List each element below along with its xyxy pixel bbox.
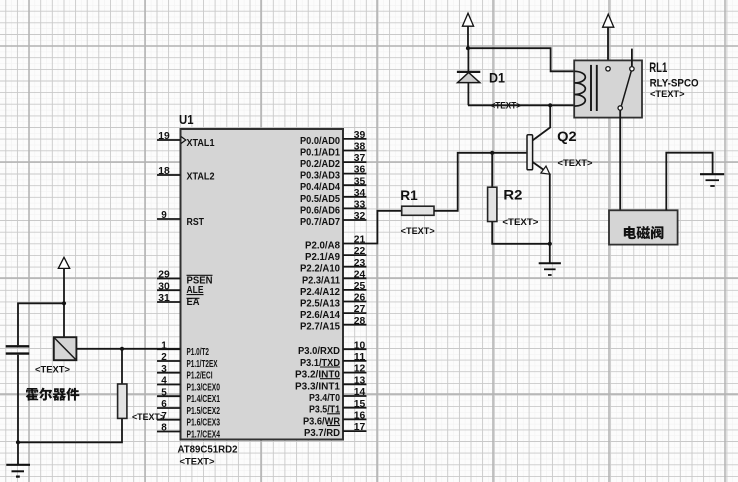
label R1 value <TEXT> bbox=[401, 226, 435, 236]
label AT89C51RD2 bbox=[178, 445, 238, 456]
svg-text:RST: RST bbox=[187, 217, 205, 228]
svg-text:12: 12 bbox=[354, 364, 366, 375]
wire emitter node to ground symbol bbox=[549, 244, 551, 263]
label D1 value <TEXT> bbox=[491, 100, 522, 110]
pin 11 P3.1/TXD bbox=[300, 352, 367, 369]
label hall sensor <TEXT> bbox=[35, 365, 70, 375]
pin 7 P1.6/CEX3 bbox=[157, 411, 220, 429]
svg-text:31: 31 bbox=[158, 293, 170, 304]
svg-text:<TEXT>: <TEXT> bbox=[502, 217, 538, 227]
svg-text:AT89C51RD2: AT89C51RD2 bbox=[178, 445, 238, 456]
svg-text:18: 18 bbox=[158, 166, 170, 177]
label 霍尔器件 (hall device) bbox=[26, 388, 80, 401]
resistor R2 bbox=[488, 187, 497, 221]
wire P2.0 to R1 bbox=[367, 211, 402, 244]
pin 39 P0.0/AD0 bbox=[300, 130, 367, 147]
pin 2 P1.1/T2EX bbox=[157, 352, 218, 370]
node junction collector/coil bottom bbox=[548, 103, 552, 107]
pin 24 P2.3/A11 bbox=[302, 269, 367, 286]
svg-text:16: 16 bbox=[354, 411, 366, 422]
svg-text:U1: U1 bbox=[179, 112, 194, 127]
ground (hall branch) bbox=[6, 465, 30, 477]
pin 31 EA bbox=[157, 293, 200, 308]
svg-text:RL1: RL1 bbox=[649, 59, 667, 75]
svg-text:P2.2/A10: P2.2/A10 bbox=[300, 264, 340, 275]
pin 36 P0.3/AD3 bbox=[300, 165, 367, 182]
pin 34 P0.5/AD5 bbox=[300, 188, 367, 205]
pin 9 RST bbox=[157, 210, 204, 228]
svg-text:P1.4/CEX1: P1.4/CEX1 bbox=[187, 394, 221, 405]
svg-text:10: 10 bbox=[354, 340, 366, 351]
svg-text:14: 14 bbox=[354, 387, 366, 398]
power symbol (relay supply, left) bbox=[462, 13, 473, 48]
solenoid valve box 电磁阀 bbox=[609, 210, 678, 244]
svg-text:XTAL1: XTAL1 bbox=[187, 138, 215, 149]
pin 32 P0.7/AD7 bbox=[300, 211, 367, 228]
pin 37 P0.2/AD2 bbox=[300, 153, 367, 170]
svg-text:P0.7/AD7: P0.7/AD7 bbox=[300, 217, 340, 228]
wire hall sensor output to P1.0 bbox=[77, 348, 181, 350]
label U1 bbox=[179, 112, 194, 127]
wire pulldown resistor to ground rail bbox=[18, 418, 122, 442]
node junction emitter/ground bbox=[548, 242, 552, 246]
pin 22 P2.1/A9 bbox=[305, 246, 367, 263]
wire R2 bottom to emitter node bbox=[492, 222, 550, 244]
wire capacitor bottom to ground rail bbox=[17, 355, 19, 443]
svg-text:6: 6 bbox=[161, 399, 167, 410]
svg-text:5: 5 bbox=[161, 387, 167, 398]
svg-text:37: 37 bbox=[354, 153, 366, 164]
svg-text:25: 25 bbox=[354, 281, 366, 292]
svg-text:XTAL2: XTAL2 bbox=[187, 172, 215, 183]
svg-text:21: 21 bbox=[354, 235, 366, 246]
svg-text:19: 19 bbox=[158, 131, 170, 142]
pin 25 P2.4/A12 bbox=[300, 281, 367, 298]
svg-text:P1.6/CEX3: P1.6/CEX3 bbox=[187, 418, 221, 429]
op-amp? no: IC U1 AT89C51RD2 body bbox=[181, 129, 344, 440]
pin 21 P2.0/A8 bbox=[305, 235, 367, 252]
svg-text:P2.3/A11: P2.3/A11 bbox=[302, 275, 340, 286]
svg-text:P1.1/T2EX: P1.1/T2EX bbox=[187, 359, 218, 370]
svg-text:13: 13 bbox=[354, 375, 366, 386]
svg-text:17: 17 bbox=[354, 422, 366, 433]
svg-text:36: 36 bbox=[354, 165, 366, 176]
label U1 value <TEXT> bbox=[180, 457, 215, 467]
pin 38 P0.1/AD1 bbox=[300, 142, 367, 159]
svg-text:35: 35 bbox=[354, 176, 366, 187]
svg-text:P3.0/RXD: P3.0/RXD bbox=[298, 346, 340, 357]
svg-text:P3.3/INT1: P3.3/INT1 bbox=[295, 381, 340, 392]
pin 17 P3.7/RD bbox=[304, 422, 367, 439]
svg-text:<TEXT>: <TEXT> bbox=[401, 226, 435, 236]
svg-text:P1.3/CEX0: P1.3/CEX0 bbox=[187, 382, 221, 393]
label R2 bbox=[503, 186, 522, 202]
pin 1 P1.0/T2 bbox=[157, 340, 209, 358]
svg-text:D1: D1 bbox=[489, 70, 505, 86]
svg-text:9: 9 bbox=[161, 210, 167, 221]
wire junction to capacitor top bbox=[18, 303, 64, 345]
svg-text:P0.1/AD1: P0.1/AD1 bbox=[300, 148, 340, 159]
pin 30 ALE bbox=[157, 281, 204, 296]
wire to ground symbol bbox=[17, 442, 19, 465]
ground (solenoid) bbox=[700, 174, 724, 186]
svg-text:P2.5/A13: P2.5/A13 bbox=[300, 299, 340, 310]
node junction D1 cathode / coil top feed bbox=[466, 46, 470, 50]
svg-text:P0.3/AD3: P0.3/AD3 bbox=[300, 171, 340, 182]
label D1 bbox=[489, 70, 505, 86]
svg-text:R1: R1 bbox=[400, 187, 418, 203]
pin 5 P1.4/CEX1 bbox=[157, 387, 220, 405]
ground (emitter) bbox=[539, 263, 561, 275]
power symbol (hall supply) bbox=[58, 257, 69, 268]
svg-text:P0.0/AD0: P0.0/AD0 bbox=[300, 136, 340, 147]
pin 14 P3.4/T0 bbox=[309, 387, 367, 404]
pin 13 P3.3/INT1 bbox=[295, 375, 367, 392]
pin 16 P3.6/WR bbox=[303, 411, 367, 428]
svg-text:RLY-SPCO: RLY-SPCO bbox=[650, 78, 699, 90]
pin 8 P1.7/CEX4 bbox=[157, 423, 220, 441]
svg-text:<TEXT>: <TEXT> bbox=[650, 89, 685, 99]
svg-text:P1.2/ECI: P1.2/ECI bbox=[187, 371, 213, 382]
svg-text:38: 38 bbox=[354, 142, 366, 153]
svg-text:22: 22 bbox=[354, 246, 366, 257]
svg-text:P1.7/CEX4: P1.7/CEX4 bbox=[187, 429, 221, 440]
label Q2 bbox=[557, 128, 577, 144]
transistor Q2 bbox=[527, 105, 550, 244]
svg-text:P2.6/A14: P2.6/A14 bbox=[300, 310, 340, 321]
pin 6 P1.5/CEX2 bbox=[157, 399, 220, 417]
svg-text:P2.4/A12: P2.4/A12 bbox=[300, 287, 340, 298]
wire relay pole to solenoid bbox=[619, 110, 621, 210]
pin 18 XTAL2 bbox=[157, 166, 215, 182]
pin 3 P1.2/ECI bbox=[157, 364, 213, 382]
svg-text:28: 28 bbox=[354, 316, 366, 327]
pin 15 P3.5/T1 bbox=[309, 399, 367, 416]
pin 4 P1.3/CEX0 bbox=[157, 376, 220, 394]
wire R1 to Q2 base bbox=[434, 153, 526, 211]
pin 28 P2.7/A15 bbox=[300, 316, 367, 333]
svg-text:24: 24 bbox=[354, 269, 366, 280]
svg-text:<TEXT>: <TEXT> bbox=[132, 412, 165, 422]
svg-text:4: 4 bbox=[161, 376, 167, 387]
wire solenoid to ground bbox=[666, 153, 712, 211]
power symbol (relay contact supply) bbox=[603, 14, 614, 66]
wire D1 anode to relay coil bottom / collector bbox=[468, 104, 574, 106]
capacitor C1 bbox=[6, 346, 30, 353]
svg-text:<TEXT>: <TEXT> bbox=[180, 457, 215, 467]
svg-text:P3.7/RD: P3.7/RD bbox=[304, 428, 340, 439]
svg-text:P0.4/AD4: P0.4/AD4 bbox=[300, 182, 340, 193]
hall sensor box bbox=[54, 337, 77, 360]
svg-text:EA: EA bbox=[187, 297, 200, 308]
svg-text:Q2: Q2 bbox=[557, 128, 577, 144]
svg-text:P0.6/AD6: P0.6/AD6 bbox=[300, 205, 340, 216]
svg-text:P2.7/A15: P2.7/A15 bbox=[300, 322, 340, 333]
svg-text:P1.5/CEX2: P1.5/CEX2 bbox=[187, 406, 221, 417]
pin 26 P2.5/A13 bbox=[300, 293, 367, 310]
svg-text:2: 2 bbox=[161, 352, 167, 363]
resistor R1 bbox=[402, 206, 434, 215]
pin 12 P3.2/INT0 bbox=[295, 364, 367, 381]
svg-text:27: 27 bbox=[354, 304, 366, 315]
svg-text:33: 33 bbox=[354, 200, 366, 211]
svg-text:34: 34 bbox=[354, 188, 366, 199]
svg-text:8: 8 bbox=[161, 423, 167, 434]
label RL1 bbox=[649, 59, 667, 75]
clock symbol on XTAL1 bbox=[181, 137, 186, 144]
wire junction down to pulldown resistor bbox=[121, 349, 123, 384]
pin 33 P0.6/AD6 bbox=[300, 200, 367, 217]
label RLY-SPCO bbox=[650, 78, 699, 90]
svg-text:26: 26 bbox=[354, 293, 366, 304]
pin 29 PSEN bbox=[157, 270, 213, 287]
wire power to hall sensor top bbox=[63, 268, 65, 337]
label pulldown resistor <TEXT> bbox=[132, 412, 165, 422]
diode D1 bbox=[457, 48, 480, 105]
label R1 bbox=[400, 187, 418, 203]
pin 27 P2.6/A14 bbox=[300, 304, 367, 321]
svg-text:P3.4/T0: P3.4/T0 bbox=[309, 393, 340, 404]
svg-text:15: 15 bbox=[354, 399, 366, 410]
node junction at power/cap branch bbox=[62, 301, 66, 305]
svg-text:29: 29 bbox=[158, 270, 170, 281]
pin 19 XTAL1 bbox=[157, 131, 215, 149]
svg-text:P2.1/A9: P2.1/A9 bbox=[305, 252, 340, 263]
svg-text:<TEXT>: <TEXT> bbox=[558, 158, 593, 168]
resistor (hall pulldown) bbox=[118, 384, 127, 418]
svg-text:P0.5/AD5: P0.5/AD5 bbox=[300, 194, 340, 205]
node junction base/R2 bbox=[490, 151, 494, 155]
label RL1 value <TEXT> bbox=[650, 89, 685, 99]
svg-text:32: 32 bbox=[354, 211, 366, 222]
svg-text:30: 30 bbox=[158, 281, 170, 292]
svg-text:R2: R2 bbox=[503, 186, 522, 202]
pin 10 P3.0/RXD bbox=[298, 340, 367, 357]
pin 23 P2.2/A10 bbox=[300, 258, 367, 275]
node junction hall output / pulldown bbox=[120, 347, 124, 351]
svg-text:23: 23 bbox=[354, 258, 366, 269]
node junction ground rail bbox=[16, 440, 20, 444]
relay RL1 body bbox=[574, 49, 642, 118]
svg-text:11: 11 bbox=[354, 352, 366, 363]
svg-text:P0.2/AD2: P0.2/AD2 bbox=[300, 159, 340, 170]
label Q2 value <TEXT> bbox=[558, 158, 593, 168]
label R2 value <TEXT> bbox=[502, 217, 538, 227]
svg-text:P2.0/A8: P2.0/A8 bbox=[305, 241, 340, 252]
wire power node to relay coil top bbox=[468, 48, 574, 71]
svg-text:P1.0/T2: P1.0/T2 bbox=[187, 347, 210, 358]
svg-text:39: 39 bbox=[354, 130, 366, 141]
wire junction to R2 top bbox=[491, 153, 493, 187]
pin 35 P0.4/AD4 bbox=[300, 176, 367, 193]
svg-text:<TEXT>: <TEXT> bbox=[35, 365, 70, 375]
svg-text:3: 3 bbox=[161, 364, 167, 375]
